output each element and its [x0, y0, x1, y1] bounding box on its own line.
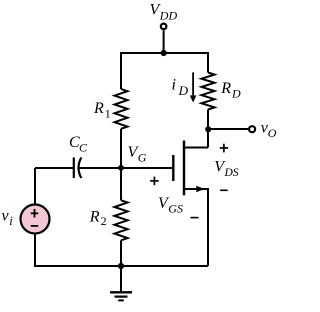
svg-text:C: C	[79, 140, 88, 154]
svg-text:GS: GS	[168, 201, 183, 215]
svg-text:1: 1	[105, 107, 111, 121]
svg-text:R: R	[220, 80, 231, 97]
svg-text:v: v	[2, 207, 10, 224]
svg-text:D: D	[178, 83, 189, 98]
svg-text:i: i	[172, 77, 176, 94]
svg-text:DS: DS	[224, 167, 239, 179]
svg-text:DD: DD	[159, 8, 178, 22]
svg-text:i: i	[9, 214, 13, 228]
svg-text:2: 2	[101, 214, 107, 228]
svg-text:O: O	[268, 126, 277, 140]
svg-text:R: R	[93, 100, 104, 117]
svg-text:D: D	[231, 87, 241, 101]
svg-text:R: R	[89, 209, 100, 226]
svg-text:G: G	[138, 150, 147, 164]
